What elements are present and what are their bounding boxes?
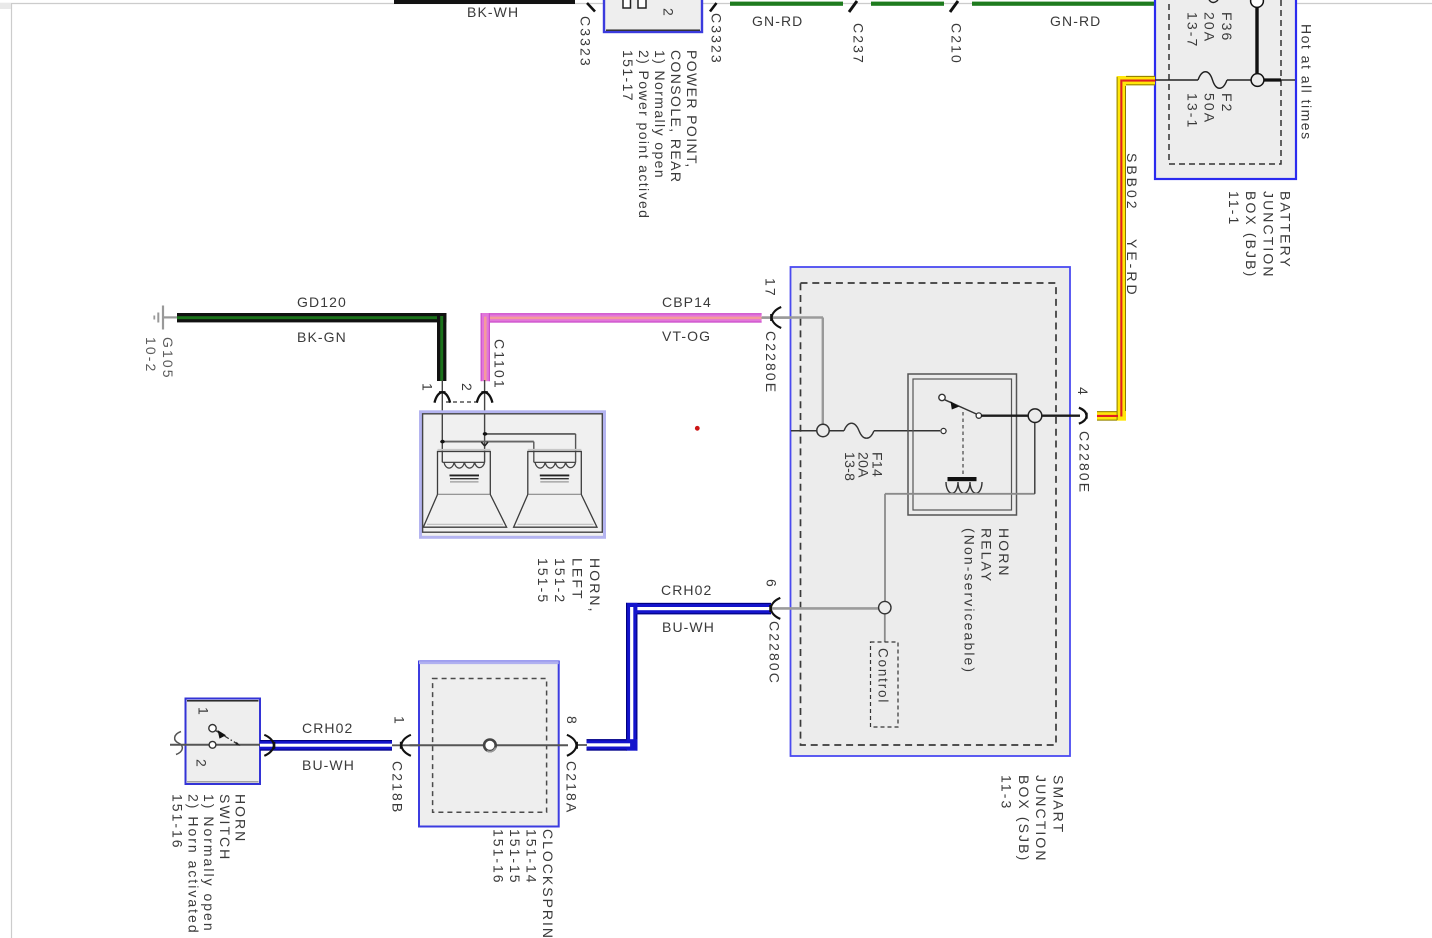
gray line to C218B arrow	[392, 744, 419, 746]
fuse F14 line	[791, 430, 844, 432]
relay arm	[945, 400, 978, 415]
connector C3323 arrow wing left	[587, 3, 595, 12]
connector arrow horn switch output	[264, 735, 274, 756]
relay coil core bar	[948, 477, 977, 481]
pin 4 output line	[981, 415, 1080, 417]
control box	[871, 642, 899, 727]
clockspring wire line	[410, 744, 569, 746]
fuse F14 symbol	[844, 423, 874, 438]
smart junction box SJB	[791, 267, 1071, 756]
wire GD120 BK-GN	[177, 313, 446, 381]
wire GN-RD segment 2	[871, 2, 944, 6]
steering wheel squiggle	[175, 732, 183, 755]
BJB junction circle at fuse	[1251, 74, 1264, 87]
connector arrow pin 17	[771, 307, 781, 328]
control branch line	[884, 494, 886, 602]
horn box	[421, 412, 605, 538]
wire BK-WH	[394, 0, 575, 4]
connector arrow pin 4	[1079, 408, 1087, 424]
connector C1101 dashed link	[446, 401, 477, 403]
red dot marker	[695, 426, 700, 431]
clockspring symbol circle	[484, 740, 496, 752]
fuse F2 line	[1155, 79, 1198, 81]
relay actuator dashed link	[962, 412, 964, 477]
relay pivot	[939, 394, 945, 400]
pin17 external gray line	[762, 317, 792, 319]
connector C237 arrow	[849, 1, 857, 12]
relay output contact	[976, 413, 981, 418]
wire GN-RD segment 1	[730, 2, 843, 6]
connector C210 arrow	[950, 1, 958, 12]
BJB terminal circle top	[1251, 0, 1264, 7]
horn relay box	[908, 374, 1017, 515]
connector arrow C218B	[401, 735, 411, 756]
junction circle pin17/F14	[817, 424, 829, 436]
horn switch arm	[215, 730, 240, 745]
pin 6 internal wire	[762, 607, 879, 610]
horn pigtail lines into box	[441, 380, 443, 462]
wire GD120 ground symbol G105	[154, 306, 178, 330]
junction circle pin4	[1028, 409, 1042, 423]
horn switch contact 2	[209, 741, 216, 748]
frame top line	[0, 3, 1432, 5]
relay coil	[946, 482, 982, 493]
connector arrow horn pin 1	[435, 392, 451, 403]
pin squares of power point	[623, 0, 631, 8]
frame left line	[11, 3, 13, 938]
coil feed line	[885, 493, 1035, 495]
connector arrow pin 6 wire end	[770, 598, 780, 619]
connector arrow horn pin 2	[477, 392, 493, 403]
power point console rear box	[604, 0, 702, 32]
junction dot B	[483, 432, 488, 436]
wire GN-RD segment 3	[972, 2, 1155, 6]
BJB battery feed thick line	[1255, 5, 1258, 75]
relay contact from fuse	[941, 428, 946, 433]
fuse F2 symbol	[1198, 72, 1227, 89]
wire CRH02 BU-WH lower (switch to clockspring)	[260, 740, 392, 751]
wire CRH02 BU-WH upper (SJB to clockspring)	[587, 603, 772, 751]
wire SBB02 YE-RD	[1097, 76, 1155, 421]
horn right symbol	[514, 450, 597, 527]
node: pin2 to right horn	[485, 433, 576, 435]
horn internal wiring	[441, 414, 443, 462]
wire CBP14 VT-OG	[481, 313, 762, 381]
horn left symbol	[423, 450, 506, 527]
horn switch contact 1	[209, 725, 216, 732]
connector arrow clockspring pin 8	[567, 735, 577, 756]
clockspring box	[419, 662, 559, 827]
pin 17 internal wire	[762, 316, 823, 319]
connector C3323 arrow wing right	[710, 3, 717, 12]
horn switch box	[186, 699, 261, 785]
crossing hop	[481, 442, 484, 446]
battery junction box BJB	[1155, 0, 1296, 179]
node: pin1 to right horn	[442, 441, 534, 443]
junction dot A	[440, 440, 445, 444]
fuse F36 remnant	[1209, 0, 1218, 3]
horn switch wire line	[170, 744, 209, 746]
junction circle control	[879, 601, 891, 613]
